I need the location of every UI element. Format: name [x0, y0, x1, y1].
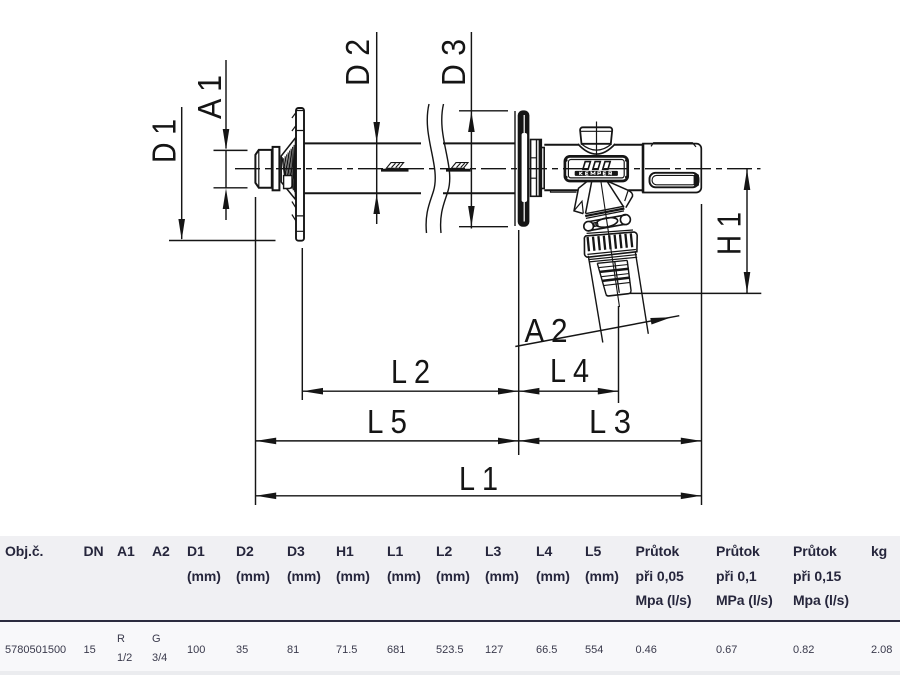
funnel bell — [574, 181, 633, 214]
serrated cone rosette — [281, 138, 295, 200]
label L1 — [459, 460, 498, 497]
label A2 — [525, 312, 568, 349]
outlet reference line — [630, 292, 761, 294]
right flange rosette — [515, 110, 529, 226]
left flange plate — [292, 108, 304, 241]
dimension D1 — [169, 107, 276, 241]
label A1 — [191, 75, 228, 119]
centerline main axis — [235, 168, 761, 170]
label D3 — [435, 39, 472, 86]
label L2 — [391, 353, 430, 390]
label L5 — [367, 403, 407, 440]
dimension L3 — [519, 438, 702, 445]
KEMPER logo plate — [565, 156, 628, 181]
label L4 — [550, 352, 589, 389]
label H1 — [711, 212, 748, 255]
label D2 — [339, 39, 376, 86]
extension line connector — [618, 306, 620, 403]
knurled nut — [584, 230, 637, 257]
extension line right end — [701, 204, 703, 505]
table header background — [0, 536, 900, 620]
handle cap — [580, 122, 612, 157]
handle neck bowtie — [578, 144, 615, 154]
dimension A1 — [214, 60, 248, 220]
thread nut R1/2 — [255, 147, 279, 190]
hose nipple ribbed — [588, 255, 637, 296]
valve body — [544, 145, 643, 192]
table header divider rule — [0, 620, 900, 623]
dimension L2 — [302, 388, 518, 395]
dimension L1 — [256, 493, 702, 500]
weld hatch mark 1 — [381, 163, 409, 171]
neck band — [585, 206, 624, 218]
extension line left end — [255, 197, 257, 505]
spout outline lines — [588, 252, 648, 343]
dimension H1 — [744, 169, 751, 293]
extension line wall face right — [518, 230, 520, 455]
dimension A2 — [515, 316, 679, 347]
weld hatch mark 2 — [446, 163, 471, 171]
label L3 — [589, 403, 631, 440]
dimension L5 — [256, 438, 519, 445]
ball ring swivel — [584, 215, 631, 231]
outlet knob — [643, 143, 701, 193]
label D1 — [146, 119, 183, 163]
extension line wall face left — [301, 248, 303, 400]
table data row background — [0, 622, 900, 671]
wire connector axis line — [601, 181, 620, 308]
dimension D2 — [373, 32, 380, 224]
dimension L4 — [519, 388, 619, 395]
pipe tube — [304, 143, 515, 193]
table next row strip — [0, 671, 900, 675]
right flange hub — [531, 140, 545, 197]
pipe break S-curves — [426, 104, 450, 233]
dimension D3 — [459, 32, 508, 229]
